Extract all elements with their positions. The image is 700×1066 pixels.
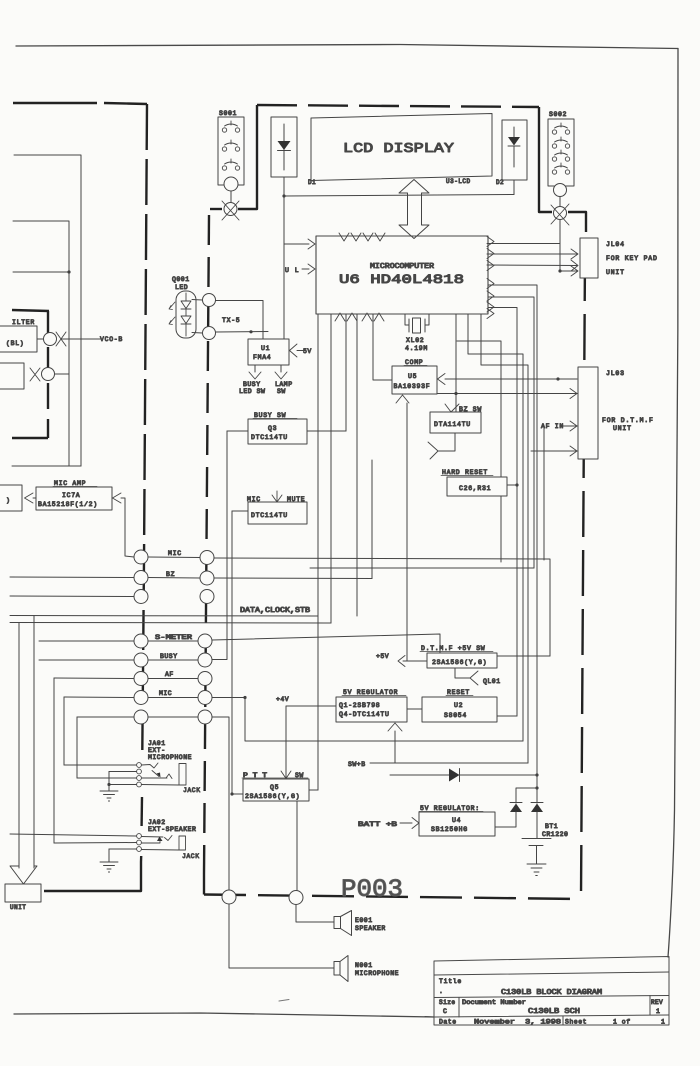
pin 5V into U1 <box>297 350 303 352</box>
svg-text:DTC114TU: DTC114TU <box>251 512 288 519</box>
svg-text:4.19M: 4.19M <box>405 345 428 352</box>
LED Q001 <box>169 276 196 338</box>
jack JA01 contact lever <box>142 763 201 794</box>
wire data bus line 1 <box>10 615 318 618</box>
connector block2 line <box>42 368 55 381</box>
svg-text:MIC: MIC <box>168 550 182 557</box>
junction B+ node <box>535 773 538 776</box>
svg-text:U6 HD40L4818: U6 HD40L4818 <box>339 272 464 287</box>
wire to microphone N001 <box>229 904 334 968</box>
junction S002 rail / JL04 pin3 <box>558 269 561 272</box>
wire U2 right to reset rail <box>497 715 517 717</box>
wire U6 data bus 2 <box>330 314 332 623</box>
connector row BUSY <box>39 653 212 667</box>
wire Q5 emitter down to speaker connector <box>296 801 298 890</box>
wire U6 data bus 1 (to left unit) <box>317 314 319 790</box>
wire Q1 bottom stub <box>394 731 396 763</box>
unit boundary: left radio unit (dashed) <box>13 103 147 891</box>
svg-text:.: . <box>439 988 443 995</box>
wire left rail A <box>14 155 81 466</box>
diode D2 (LCD backlight) <box>496 120 527 186</box>
svg-text:C: C <box>443 1008 447 1015</box>
transistor DTA114TU (BZ SW) <box>430 404 482 433</box>
wire S-METER row to DTMF switch <box>212 634 440 653</box>
wire JA01 pin4 <box>109 784 137 786</box>
microcomputer U6 HD40L4818 <box>316 236 488 314</box>
wire JA02 pin3 <box>109 848 137 850</box>
svg-text:Q4-DTC114TU: Q4-DTC114TU <box>339 711 390 718</box>
svg-text:BT1: BT1 <box>545 823 558 830</box>
pin arrow JL03 pin2 <box>570 389 577 399</box>
svg-text:Q001: Q001 <box>172 276 190 283</box>
svg-text:FMA4: FMA4 <box>253 354 271 361</box>
svg-text:1: 1 <box>661 1019 665 1026</box>
mic amp IC7A <box>36 480 112 510</box>
wire data bus drop 1 <box>33 616 35 869</box>
X mark on VCO wire <box>56 332 66 346</box>
pin arrow Q1 bottom <box>388 723 402 731</box>
wire BUSY row to Q3 rail <box>212 659 227 661</box>
svg-text:MICROCOMPUTER: MICROCOMPUTER <box>370 263 435 271</box>
svg-text:EXT-: EXT- <box>148 747 166 754</box>
svg-text:): ) <box>6 497 10 504</box>
svg-text:Title: Title <box>439 978 462 985</box>
connector row 3 <box>10 590 214 604</box>
svg-text:COMP: COMP <box>405 359 423 366</box>
wire LED to connectors <box>192 300 203 334</box>
switch S002 <box>548 111 574 186</box>
svg-text:UNIT: UNIT <box>606 269 625 276</box>
svg-text:JA01: JA01 <box>148 740 166 747</box>
svg-text:C26,R31: C26,R31 <box>459 485 491 492</box>
wire S001 to border connector <box>230 191 232 203</box>
svg-text:+5V: +5V <box>376 653 389 660</box>
switch S001 <box>218 110 244 185</box>
junction left rail B <box>67 270 70 273</box>
transistor QL01 stub <box>455 668 470 678</box>
title block <box>425 957 669 1026</box>
JA02 pin circles <box>137 834 142 852</box>
pin marks U6 top edge <box>339 233 385 241</box>
svg-text:LCD DISPLAY: LCD DISPLAY <box>343 141 455 157</box>
svg-text:U1: U1 <box>261 345 270 352</box>
svg-text:UNIT: UNIT <box>10 904 26 911</box>
svg-text:SPEAKER: SPEAKER <box>355 925 386 932</box>
wire C26,R31 to reset rail <box>507 484 517 486</box>
connector row MIC jack <box>64 690 212 705</box>
svg-text:1 of: 1 of <box>613 1019 631 1026</box>
junction Q5 base <box>230 792 233 795</box>
svg-text:C130LB SCH: C130LB SCH <box>528 1008 580 1016</box>
wire U6 to JL04 pin1 <box>487 253 577 255</box>
connector row S-METER <box>39 634 212 648</box>
ground (JA01) <box>100 791 118 801</box>
wire 2SA1586 right to MIC rail <box>497 655 550 657</box>
svg-text:2SA1586(Y,G): 2SA1586(Y,G) <box>245 793 300 800</box>
wire U6 to U5 comp <box>373 314 392 380</box>
svg-text:AF: AF <box>165 671 174 678</box>
svg-text:U L: U L <box>285 267 300 274</box>
wire left stub <box>13 271 69 273</box>
wire MIC MUTE base left <box>232 510 248 512</box>
svg-text:XL02: XL02 <box>406 337 424 344</box>
wire U6 staircase to U2 rail <box>457 341 501 562</box>
pin arrow U5 bottom <box>396 395 409 403</box>
wire AF feed rail <box>543 426 545 560</box>
left unit block 2 <box>0 363 24 389</box>
crystal XL02 4.19M <box>405 314 429 352</box>
jack JA02 ext-speaker <box>148 819 196 833</box>
transistor Q5 (PTT SW) <box>242 768 309 801</box>
wire JA02 pin2 <box>54 842 137 845</box>
junction battery branch <box>535 786 538 789</box>
wire U5 to JL03 pin1 <box>445 378 577 380</box>
junction TX-5 <box>249 330 252 333</box>
wire U6 staircase rail3 <box>481 314 528 763</box>
svg-text:(BL): (BL) <box>6 340 24 347</box>
svg-text:S-METER: S-METER <box>155 634 192 641</box>
stray mark <box>279 1000 289 1002</box>
svg-text:5V REGULATOR:: 5V REGULATOR: <box>420 805 480 812</box>
wire JA02 ground drop <box>108 849 110 862</box>
svg-text:Document Number: Document Number <box>462 999 526 1006</box>
wire U6 to JL04 pin2 <box>487 264 577 267</box>
svg-text:DATA,CLOCK,STB: DATA,CLOCK,STB <box>240 607 310 615</box>
filter unit dashed box <box>12 310 49 438</box>
svg-text:UNIT: UNIT <box>613 425 632 432</box>
svg-text:5V: 5V <box>303 348 312 355</box>
battery BT1 CR1220 <box>522 823 568 864</box>
wire mute rail to Q5 <box>231 511 233 794</box>
wire left rail bottom return <box>12 465 81 467</box>
svg-text:U3-LCD: U3-LCD <box>446 178 471 185</box>
connector pad under S001 <box>224 177 238 191</box>
connector JL03 <box>578 367 654 459</box>
connector row BZ <box>10 571 214 586</box>
connector pad (mic line, bottom border) <box>222 890 236 904</box>
svg-text:BA15218F(1/2): BA15218F(1/2) <box>38 501 98 508</box>
border connector (LED lamp line) <box>203 294 216 307</box>
wire S002 connector down-rail <box>559 220 561 272</box>
svg-text:SW+B: SW+B <box>348 761 366 768</box>
svg-text:TX-5: TX-5 <box>222 317 240 324</box>
svg-text:MIC AMP: MIC AMP <box>54 480 86 487</box>
svg-text:D.T.M.F +5V SW: D.T.M.F +5V SW <box>421 645 485 652</box>
wire block2 to rail <box>55 373 70 375</box>
wire Q3 collector right <box>307 430 346 432</box>
svg-text:BA10393F: BA10393F <box>394 383 431 390</box>
pin marks U6 right edge <box>487 237 494 319</box>
speaker E001 <box>334 911 386 936</box>
switch 2SA1586 (D.T.M.F +5V SW) <box>420 645 497 668</box>
border connector (TX-5 line) <box>203 327 216 340</box>
wire PTT rail down <box>245 698 523 742</box>
svg-text:C130LB BLOCK DIAGRAM: C130LB BLOCK DIAGRAM <box>501 989 602 997</box>
wire S002 pads <box>559 197 561 207</box>
connector row MIC <box>134 550 214 565</box>
svg-text:MICROPHONE: MICROPHONE <box>148 754 192 761</box>
wire BZ row to U6 <box>214 577 372 580</box>
svg-text:JL03: JL03 <box>606 370 625 377</box>
svg-text:Date: Date <box>439 1019 457 1026</box>
LCD display module <box>311 114 492 186</box>
wire AF to JA02 <box>53 678 55 843</box>
svg-text:DTC114TU: DTC114TU <box>251 434 288 441</box>
svg-text:P003: P003 <box>341 875 403 904</box>
jack JA02 contact lever <box>142 836 200 861</box>
svg-text:MIC: MIC <box>159 690 172 697</box>
svg-text:LAMP: LAMP <box>275 381 293 388</box>
diode battery isolation <box>390 774 537 776</box>
wire JL03 pin4 <box>531 450 577 452</box>
wire +5V output arrow <box>398 656 405 667</box>
wire U6 to Q3 busy sw <box>345 314 347 431</box>
wire battery branch <box>516 788 537 803</box>
junction reset rail <box>515 483 518 486</box>
wire D1 bottom rail <box>283 177 285 339</box>
wire VCO-B <box>61 338 100 340</box>
svg-text:Q1-2SB798: Q1-2SB798 <box>339 702 380 709</box>
diode D (to BT1) <box>531 802 543 804</box>
svg-text:QL01: QL01 <box>483 678 501 685</box>
wire JA01 pin3 <box>77 777 137 779</box>
svg-text:FOR D.T.M.F: FOR D.T.M.F <box>602 417 654 424</box>
wire U1 busy led sw output <box>254 365 256 372</box>
svg-text:VCO-B: VCO-B <box>100 336 123 343</box>
svg-text:JL04: JL04 <box>606 241 625 248</box>
wire DTA emitter elbow <box>438 433 455 451</box>
wire D1 to D2 <box>284 195 514 197</box>
ground (BT1) <box>527 864 546 876</box>
regulator Q1/Q4 (5V regulator) <box>336 689 407 722</box>
wire U6 staircase rail2 <box>468 314 523 741</box>
svg-text:+4V: +4V <box>276 696 289 703</box>
wire data bus line 2 <box>10 622 331 625</box>
ground (JA02) <box>100 862 118 872</box>
wire U1 lamp sw output <box>280 365 282 372</box>
jack JA01 ext-microphone <box>148 740 192 761</box>
wire diode to battery <box>536 812 538 838</box>
svg-text:JACK: JACK <box>182 853 200 860</box>
diode D (to U4) <box>510 802 522 804</box>
connector pad (speaker line, bottom border) <box>289 891 303 905</box>
wire U6 right pin rail <box>488 297 534 568</box>
wire Q5 collector right <box>309 789 318 791</box>
microphone N001 <box>334 956 399 982</box>
svg-text:U4: U4 <box>452 817 461 824</box>
reset IC U2 S8054 <box>422 689 497 722</box>
svg-text:REV: REV <box>651 999 663 1006</box>
diode D1 (LCD backlight) <box>271 117 316 186</box>
border connector with X (S002 line) <box>551 204 569 225</box>
svg-text:FOR KEY PAD: FOR KEY PAD <box>606 255 658 262</box>
wire U6 right pin to B+ rail <box>488 285 537 775</box>
svg-text:MICROPHONE: MICROPHONE <box>355 970 399 977</box>
wire AF IN to JL03 <box>563 425 577 427</box>
svg-text:S8054: S8054 <box>444 712 467 719</box>
svg-text:BUSY SW: BUSY SW <box>254 412 286 419</box>
wire data bus drop 2 <box>18 623 20 869</box>
wire U5 bottom rail to +5V switch <box>406 403 408 661</box>
svg-text:Sheet: Sheet <box>565 1019 587 1026</box>
junction PTT rail <box>243 696 246 699</box>
wire JA01 ground drop <box>108 772 110 792</box>
wire diode to U4 <box>495 812 516 827</box>
wire D1 node to U6 pin <box>284 243 309 245</box>
wire left rail B <box>13 221 69 466</box>
wire U6 bus to DTA114TU / JL03 <box>455 314 457 412</box>
svg-text:2SA1586(Y,G): 2SA1586(Y,G) <box>432 659 487 666</box>
connector row AF <box>54 671 212 686</box>
comparator U5 BA10393F <box>392 359 437 394</box>
junction DTA rail / JL03 pin2 wire <box>454 392 457 395</box>
transistor MIC MUTE (DTC114TU) <box>247 491 307 524</box>
block UNIT (bottom left) <box>5 884 41 911</box>
wire D2 bottom <box>513 180 515 195</box>
wire U6 to BZ row <box>356 314 358 616</box>
wire Q1 to U2 <box>407 708 422 710</box>
svg-text:Q3: Q3 <box>268 425 277 432</box>
connector JL04 <box>580 238 658 278</box>
wire TX-5 line <box>216 331 269 334</box>
svg-text:JA02: JA02 <box>148 819 166 826</box>
bus arrow to main unit (hollow) <box>10 866 37 884</box>
unit boundary: main PCB unit (dashed) <box>204 105 586 899</box>
wire BATT B feed arrow <box>400 822 412 824</box>
wire row5 right to bottom connector <box>212 717 229 890</box>
JA01 pin circles <box>137 763 142 787</box>
pin arrow into IC7A right <box>113 493 122 503</box>
junction JA01 ground <box>107 783 110 786</box>
svg-text:N001: N001 <box>355 962 373 969</box>
pin marks U6 bottom edge <box>335 313 384 321</box>
svg-text:LED SW: LED SW <box>239 388 265 395</box>
wire SW-B line <box>370 762 528 764</box>
regulator U4 SB1250HG (5V regulator) <box>419 805 495 836</box>
left unit block 3 <box>0 485 22 511</box>
filter block (BL) <box>0 326 37 352</box>
wire B+ down <box>536 775 538 788</box>
wire JA02 pin1 (speaker line) <box>10 834 137 836</box>
svg-text:IC7A: IC7A <box>62 492 80 499</box>
wire MIC input to IC7A <box>121 498 134 557</box>
wire Q5 base left <box>232 793 243 795</box>
svg-text:E001: E001 <box>355 917 373 924</box>
border connector with X (S001 line) <box>222 201 239 220</box>
svg-text:BATT +B: BATT +B <box>358 821 397 828</box>
pin arrow IC7A output left <box>25 493 34 503</box>
wire MIC row to JA01 pin1 <box>63 697 65 765</box>
wire Q3 base left <box>227 430 248 432</box>
wire U6 right pin to U2 reset rail <box>488 308 517 717</box>
svg-text:JACK: JACK <box>183 787 201 794</box>
svg-text:ILTER: ILTER <box>12 319 35 326</box>
connector row 5 <box>77 710 212 724</box>
svg-text:Size: Size <box>439 999 455 1006</box>
X mark on block2 wire <box>30 368 40 381</box>
svg-text:BUSY: BUSY <box>160 653 178 660</box>
svg-text:D2: D2 <box>496 179 504 186</box>
wire Q3 rail to BUSY row <box>226 431 228 659</box>
wire lamp connector to U1 <box>216 301 264 340</box>
connector VCO line <box>44 333 57 346</box>
pin U L into U6 left <box>302 268 309 270</box>
wire U5 pin2 to JL03 <box>437 393 577 395</box>
svg-text:CR1220: CR1220 <box>542 831 568 838</box>
svg-text:LED: LED <box>175 284 188 291</box>
resistor-capacitor C26,R31 (hard reset) <box>441 469 507 496</box>
svg-text:BUSY: BUSY <box>243 381 261 388</box>
wire S002 rail to U6 pin <box>487 243 560 245</box>
junction on JL03 pin1 wire <box>556 377 559 380</box>
svg-text:5V REGULATOR: 5V REGULATOR <box>343 689 398 696</box>
svg-text:SB1250HG: SB1250HG <box>431 826 468 833</box>
svg-text:S002: S002 <box>549 111 567 118</box>
wire MIC row to 2SA1586 rail <box>214 558 550 656</box>
svg-text:BZ: BZ <box>166 571 175 578</box>
wire to speaker E001 <box>296 905 334 923</box>
wire row5 to JA01 pin3 <box>76 717 78 778</box>
second mic pair wire <box>310 567 534 569</box>
wire DTA emitter to BZ <box>371 460 373 579</box>
svg-text:HARD RESET: HARD RESET <box>442 469 488 476</box>
wire +4V feed <box>286 706 336 779</box>
svg-text:RESET: RESET <box>447 689 470 696</box>
svg-text:DTA114TU: DTA114TU <box>434 421 471 428</box>
wire filter to connector <box>37 338 43 340</box>
svg-text:EXT-SPEAKER: EXT-SPEAKER <box>148 826 196 833</box>
svg-text:U5: U5 <box>408 373 417 380</box>
svg-text:SW: SW <box>277 388 286 395</box>
wire JA01 pin1 <box>64 764 137 766</box>
wire to JL04 pin3 <box>560 270 577 272</box>
transistor Q3 (BUSY SW) <box>248 412 307 444</box>
regulator U1 FMA4 <box>248 339 289 365</box>
svg-text:November 3, 1998: November 3, 1998 <box>474 1019 561 1026</box>
junction D1 node <box>282 194 285 197</box>
bus arrow LCD to U6 (double-headed) <box>399 180 429 239</box>
wire MIC row right to PTT rail <box>212 697 245 699</box>
wire JA01 pin2 <box>109 771 137 773</box>
svg-text:Q5: Q5 <box>270 784 279 791</box>
svg-text:S001: S001 <box>219 110 237 117</box>
svg-text:1: 1 <box>656 1008 660 1015</box>
svg-text:U2: U2 <box>454 702 463 709</box>
pin arrow into U5 right <box>438 374 446 385</box>
connector pad under S002 <box>554 184 567 197</box>
